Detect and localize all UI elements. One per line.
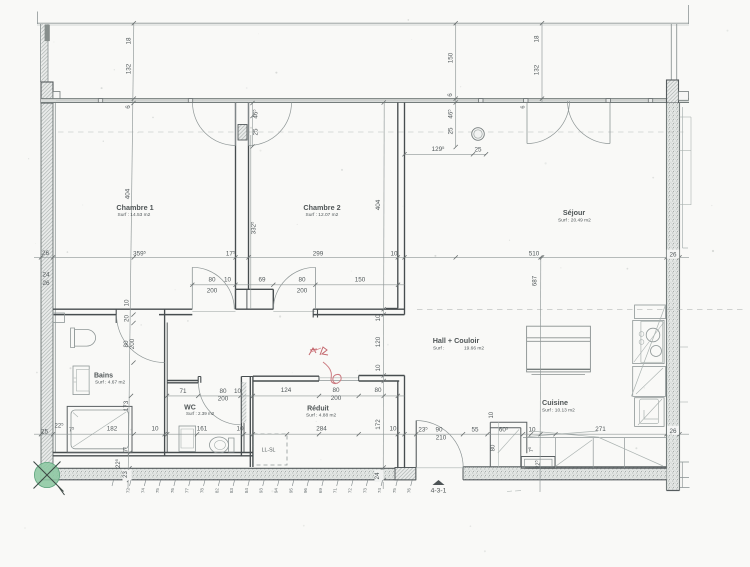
- svg-text:24: 24: [374, 472, 381, 480]
- chambre2 / sejour wall: [397, 103, 399, 309]
- svg-text:76: 76: [407, 488, 412, 494]
- svg-text:71: 71: [333, 488, 338, 494]
- entrance door arc: [416, 421, 463, 468]
- svg-text:26: 26: [42, 250, 50, 257]
- wc washbasin: [179, 426, 196, 451]
- svg-text:80: 80: [491, 444, 497, 451]
- chambre2 balcony door arc: [249, 103, 292, 146]
- sejour double door right leaf: [609, 101, 611, 144]
- svg-text:10: 10: [528, 426, 536, 433]
- svg-text:72: 72: [348, 488, 353, 494]
- svg-text:77: 77: [185, 488, 190, 494]
- chambre2 door threshold: [273, 310, 315, 312]
- counter diagonals: [528, 431, 598, 437]
- svg-text:74: 74: [140, 488, 145, 494]
- tall unit diagonals: [631, 305, 665, 396]
- kitchen island: [527, 326, 591, 372]
- svg-text:404: 404: [375, 199, 382, 210]
- dim vline x250.8 (332.5): [250, 135, 252, 309]
- rail dark top segment: [45, 25, 50, 41]
- chambre2 balcony door leaf: [248, 103, 250, 146]
- LL-SL dashed box: [254, 434, 288, 465]
- svg-text:25: 25: [474, 147, 482, 154]
- top-right lintel: [679, 92, 689, 101]
- svg-text:10: 10: [390, 251, 398, 258]
- corridor north wall (bedrooms south) top line: [53, 308, 192, 310]
- svg-text:Surf : 2.39 m2: Surf : 2.39 m2: [186, 411, 215, 416]
- Reduit north wall east segment: [359, 375, 405, 377]
- svg-text:10: 10: [389, 426, 397, 433]
- kitchen sink cabinet box: [521, 457, 555, 469]
- svg-text:19.66 m2: 19.66 m2: [464, 346, 484, 352]
- svg-text:10: 10: [234, 388, 242, 395]
- svg-text:20: 20: [124, 315, 131, 323]
- chambre1 balcony door leaf: [235, 103, 237, 146]
- svg-text:84: 84: [244, 488, 249, 494]
- svg-text:75: 75: [155, 488, 160, 494]
- WC north wall: [167, 380, 198, 382]
- WC door jamb cap: [197, 377, 199, 383]
- svg-text:200: 200: [218, 396, 229, 403]
- svg-text:69: 69: [318, 488, 323, 494]
- svg-text:200: 200: [129, 338, 136, 349]
- dim hline y257.4: [34, 256, 689, 258]
- svg-text:10: 10: [151, 426, 159, 433]
- svg-text:Surf : 4.67 m2: Surf : 4.67 m2: [95, 380, 125, 386]
- kitchen tall unit: [635, 305, 666, 319]
- scan noise: [246, 87, 248, 89]
- svg-text:75: 75: [392, 488, 397, 494]
- svg-text:18: 18: [534, 35, 541, 43]
- svg-text:Surf : 20.49 m2: Surf : 20.49 m2: [558, 218, 591, 224]
- chambre1 corridor door leaf: [191, 267, 193, 309]
- svg-text:80: 80: [298, 277, 306, 284]
- svg-text:182: 182: [107, 426, 118, 433]
- red scribble text: [309, 347, 328, 355]
- svg-text:404: 404: [125, 188, 132, 199]
- chambre2 door dim line x252.5: [252, 103, 254, 147]
- bathtub: [67, 406, 132, 452]
- svg-text:132: 132: [534, 64, 541, 75]
- bottom exterior wall right part: [463, 467, 667, 480]
- svg-text:Séjour: Séjour: [563, 208, 586, 217]
- corridor north wall bottom line w/ Bains door gap: [53, 314, 117, 316]
- bottom exterior wall left part (hatched): [41, 468, 416, 480]
- entrance threshold: [416, 467, 463, 469]
- Reduit east wall: [397, 381, 399, 468]
- svg-text:10: 10: [489, 411, 495, 418]
- svg-text:10: 10: [236, 426, 244, 433]
- WC west wall (Bains east): [164, 309, 166, 456]
- sejour double door right arc: [568, 101, 611, 144]
- bains door arc: [117, 315, 165, 363]
- svg-text:80: 80: [374, 387, 382, 394]
- svg-text:120: 120: [375, 336, 382, 347]
- column (circle): [472, 128, 485, 141]
- svg-text:Chambre 1: Chambre 1: [116, 203, 153, 212]
- wc toilet: [229, 438, 235, 452]
- svg-text:80: 80: [219, 388, 227, 395]
- svg-text:82: 82: [214, 488, 219, 494]
- red scribble loop: [323, 362, 341, 384]
- chambre1 door threshold: [192, 310, 235, 312]
- chambre1 corridor door arc: [192, 267, 234, 309]
- svg-text:150: 150: [447, 52, 454, 63]
- wc door arc: [199, 383, 241, 425]
- dim vline x456: [455, 23, 457, 147]
- svg-text:90: 90: [435, 427, 443, 434]
- green survey circle: [34, 462, 59, 487]
- top exterior wall: [41, 99, 689, 103]
- svg-text:80: 80: [332, 387, 340, 394]
- svg-text:94: 94: [274, 488, 279, 494]
- svg-text:Surf :: Surf :: [433, 346, 444, 352]
- balcony top edge line: [37, 22, 689, 24]
- Reduit west wall: [249, 377, 251, 468]
- Reduit north wall west segment: [253, 375, 319, 377]
- svg-text:LL-SL: LL-SL: [262, 448, 276, 454]
- svg-text:Cuisine: Cuisine: [542, 398, 568, 407]
- left exterior wall (hatched): [41, 82, 53, 480]
- bains washbasin: [73, 366, 89, 395]
- svg-text:4-3-1: 4-3-1: [431, 488, 447, 495]
- svg-text:299: 299: [313, 251, 324, 258]
- neighbour lines right of wall: [682, 107, 684, 248]
- balcony right corner mark: [688, 5, 690, 24]
- kitchen counter extension line: [498, 422, 500, 467]
- svg-text:69: 69: [258, 277, 266, 284]
- chambre2 corridor door arc: [273, 267, 315, 309]
- dim vline x384 (chambre2 chain): [383, 103, 384, 490]
- faint marks below band: [507, 490, 512, 493]
- axis dashed line lower (hall/sejour): [417, 309, 745, 311]
- bains toilet: [71, 328, 75, 348]
- first unlabeled tick: [112, 480, 114, 486]
- partition wall foot (69): [236, 288, 274, 290]
- svg-text:687: 687: [532, 275, 539, 286]
- svg-text:25: 25: [447, 127, 454, 135]
- svg-text:55: 55: [471, 426, 479, 433]
- WC east wall + duct: [240, 377, 242, 456]
- dim ticks: [39, 255, 43, 259]
- svg-text:210: 210: [436, 435, 447, 442]
- svg-text:200: 200: [297, 288, 308, 295]
- svg-text:25: 25: [253, 128, 260, 136]
- balcony left rail: [40, 24, 42, 82]
- bedroom partition wall C1/C2: [235, 103, 237, 290]
- pier step: [53, 92, 60, 101]
- svg-text:6: 6: [125, 105, 132, 109]
- svg-text:Chambre 2: Chambre 2: [303, 203, 340, 212]
- svg-text:6: 6: [447, 93, 454, 97]
- Bains NW duct stub: [53, 313, 64, 323]
- svg-text:150: 150: [355, 277, 366, 284]
- svg-text:78: 78: [200, 488, 205, 494]
- svg-text:124: 124: [281, 387, 292, 394]
- balcony left corner mark: [37, 12, 39, 25]
- green symbol X spokes: [34, 462, 64, 492]
- entrance door leaf: [415, 421, 417, 468]
- svg-text:24: 24: [42, 272, 50, 279]
- svg-text:26: 26: [669, 252, 677, 259]
- chambre2 corridor door leaf: [314, 267, 316, 309]
- svg-text:Bains: Bains: [94, 373, 113, 380]
- svg-text:172: 172: [375, 419, 382, 430]
- svg-text:10: 10: [224, 277, 232, 284]
- svg-text:Réduit: Réduit: [307, 406, 329, 413]
- svg-text:71: 71: [179, 388, 187, 395]
- svg-text:93: 93: [259, 488, 264, 494]
- svg-text:73: 73: [362, 488, 367, 494]
- dim vline x540 (687): [539, 257, 542, 492]
- dim hline y395.9: [167, 395, 405, 397]
- left wall inner face line: [54, 103, 56, 453]
- left wall top pier: [41, 82, 53, 103]
- Reduit door threshold: [319, 377, 359, 379]
- Bains door jamb stub: [115, 309, 117, 323]
- dim vline x134 (left chain): [128, 23, 134, 489]
- chambre1 balcony door arc: [193, 103, 236, 146]
- svg-text:Surf : 10.13 m2: Surf : 10.13 m2: [542, 408, 575, 414]
- dim vline x542: [541, 23, 543, 102]
- svg-text:200: 200: [207, 288, 218, 295]
- svg-text:6: 6: [521, 105, 527, 108]
- svg-text:Surf : 4.88 m2: Surf : 4.88 m2: [306, 413, 336, 419]
- svg-text:25: 25: [41, 429, 49, 436]
- kitchen south counter band: [523, 437, 667, 439]
- svg-text:Surf : 12.07 m2: Surf : 12.07 m2: [306, 212, 339, 218]
- svg-text:173: 173: [123, 400, 130, 411]
- axis dashed line upper: [58, 131, 688, 133]
- svg-text:284: 284: [316, 426, 327, 433]
- svg-text:76: 76: [170, 488, 175, 494]
- svg-text:510: 510: [529, 251, 540, 258]
- right exterior wall (sand hatched): [667, 103, 680, 491]
- svg-text:Hall + Couloir: Hall + Couloir: [433, 336, 480, 345]
- corridor top line extension toward sejour wall: [386, 307, 398, 309]
- dim hline y284.8: [190, 284, 405, 286]
- svg-text:161: 161: [197, 426, 208, 433]
- top-right pier: [667, 80, 679, 103]
- svg-text:10: 10: [375, 314, 382, 322]
- partition chimney duct: [238, 125, 247, 141]
- svg-text:271: 271: [595, 426, 606, 433]
- svg-text:10: 10: [375, 364, 382, 372]
- svg-text:26: 26: [42, 280, 50, 287]
- sejour double door left arc: [527, 101, 570, 144]
- entrance recess stub: [395, 468, 416, 480]
- svg-text:72: 72: [126, 488, 131, 494]
- 26 on right wall (white box): [667, 250, 679, 259]
- svg-text:95: 95: [288, 488, 293, 494]
- svg-text:74: 74: [377, 488, 382, 494]
- svg-text:80: 80: [208, 277, 216, 284]
- svg-text:200: 200: [331, 395, 342, 402]
- Bains/WC south wall: [53, 452, 253, 454]
- svg-text:10: 10: [124, 299, 131, 307]
- kitchen west counter (L-shape): [490, 422, 527, 453]
- svg-text:18: 18: [126, 37, 133, 45]
- 4-3-1 triangle marker: [433, 480, 445, 485]
- balcony right rail: [670, 24, 672, 80]
- window ticks: [98, 99, 102, 103]
- svg-text:96: 96: [303, 488, 308, 494]
- svg-text:132: 132: [126, 63, 133, 74]
- dim hline y154.3 (129.5/25): [405, 153, 487, 155]
- tiny survey tick numbers: [130, 480, 132, 486]
- svg-text:Surf : 14.53 m2: Surf : 14.53 m2: [118, 212, 151, 218]
- corridor wall segment east of chambre2 door: [313, 308, 404, 310]
- svg-text:83: 83: [229, 488, 234, 494]
- sejour double door left leaf: [526, 101, 528, 144]
- dim hline y434.2: [34, 433, 689, 435]
- svg-text:23: 23: [123, 471, 129, 478]
